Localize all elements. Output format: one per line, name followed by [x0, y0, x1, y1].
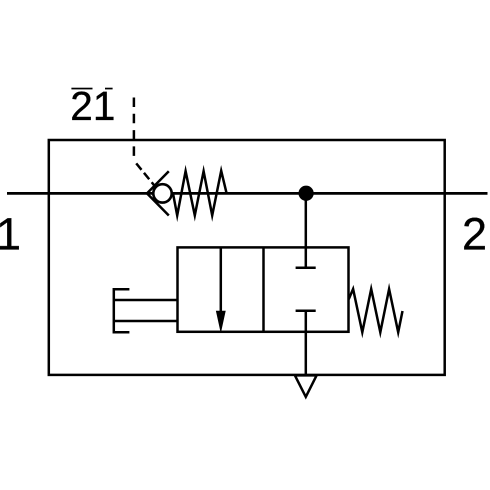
valve left position: flow arrow — [220, 247, 223, 313]
valve right position: blocked port (bottom T) — [296, 309, 316, 312]
overline over digit 2 of label 21 — [71, 88, 92, 90]
check valve spring — [173, 171, 227, 216]
exhaust triangle — [295, 375, 317, 397]
svg-text:2: 2 — [462, 208, 487, 259]
plunger actuator (mechanical) — [114, 289, 130, 332]
wire: main flow line from port 1 to port 2 — [7, 192, 488, 195]
check valve seat — [147, 171, 169, 215]
svg-text:1: 1 — [0, 208, 21, 259]
wire: branch from junction down to valve port — [305, 193, 308, 267]
valve position divider — [262, 247, 265, 331]
2/2 valve body (two position boxes) — [178, 247, 349, 331]
plunger rod lower line — [114, 320, 178, 323]
valve right position: blocked port (top T) — [296, 266, 316, 269]
check valve ball — [153, 184, 171, 202]
enclosure (valve assembly boundary box) — [49, 140, 445, 375]
svg-text:21: 21 — [70, 83, 115, 129]
node: junction of main line and pilot branch — [299, 186, 314, 201]
valve return spring — [349, 289, 403, 332]
pilot line 21 (dashed) — [133, 98, 136, 161]
overline over digit 1 of label 21 — [105, 88, 113, 90]
wire: from bottom blocked port down to exhaust — [305, 311, 308, 376]
plunger rod upper line — [114, 299, 178, 302]
